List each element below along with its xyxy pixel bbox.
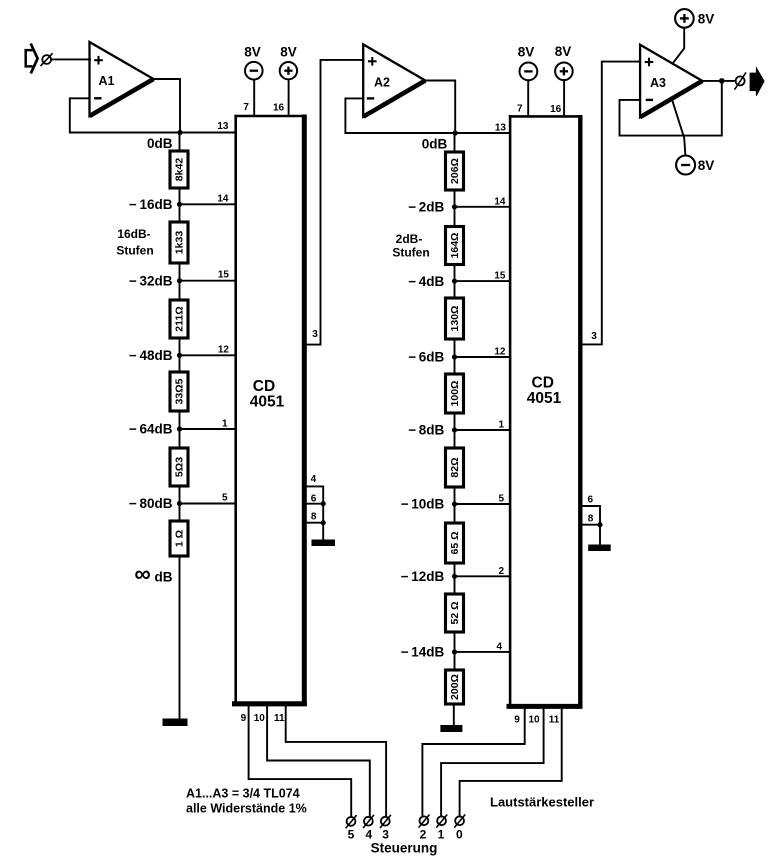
svg-text:33Ω5: 33Ω5: [174, 378, 186, 404]
svg-text:16: 16: [273, 103, 285, 114]
svg-text:11: 11: [274, 713, 285, 724]
resistor 8k42: [170, 151, 188, 188]
svg-text:0dB: 0dB: [147, 136, 173, 151]
svg-text:5Ω3: 5Ω3: [174, 457, 186, 477]
wire ladder1 seg4: [179, 338, 181, 372]
svg-text:6: 6: [588, 495, 594, 506]
resistor 1Ω: [170, 521, 188, 556]
svg-text:− 2dB: − 2dB: [408, 200, 444, 215]
svg-text:52 Ω: 52 Ω: [449, 601, 461, 624]
terminal 5: [346, 815, 357, 841]
svg-text:Stufen: Stufen: [392, 246, 429, 260]
wire A2 feedback: [345, 98, 455, 133]
wire tap 14: [180, 203, 236, 205]
resistor 65Ω: [446, 523, 464, 563]
pins 9,10,11 (U1): [241, 713, 285, 724]
wire tap 1: [180, 428, 236, 430]
resistor 130Ω: [446, 298, 464, 339]
wire A1 feedback: [70, 98, 180, 132]
input jack J1: [41, 53, 53, 66]
node -80dB: [177, 501, 182, 506]
svg-text:13: 13: [495, 123, 507, 134]
node -6dB: [452, 354, 457, 359]
wire ladder2 to ground: [453, 704, 455, 726]
svg-text:− 80dB: − 80dB: [129, 496, 173, 511]
wire ladder1 seg6: [179, 486, 181, 521]
svg-text:8V: 8V: [280, 45, 297, 60]
wire pin 9 to terminal 5: [249, 706, 352, 817]
wire A3 feedback: [620, 81, 722, 136]
svg-text:− 64dB: − 64dB: [129, 422, 173, 437]
svg-text:4: 4: [365, 828, 372, 842]
svg-text:− 12dB: − 12dB: [401, 569, 445, 584]
wire A1 output: [154, 79, 181, 133]
svg-text:8V: 8V: [518, 45, 535, 60]
resistor 82Ω: [446, 448, 464, 487]
svg-text:16: 16: [550, 104, 562, 115]
IC U1 CD4051: [232, 115, 307, 706]
wire pin 11 to terminal 0: [460, 709, 562, 817]
svg-text:5: 5: [222, 493, 228, 504]
svg-text:A1: A1: [99, 74, 115, 88]
node 0dB (A1 out): [177, 130, 182, 135]
svg-text:0dB: 0dB: [422, 136, 448, 151]
node -64dB: [177, 426, 182, 431]
svg-text:7: 7: [243, 102, 249, 113]
resistor 5Ω3: [170, 448, 188, 486]
terminal 4: [363, 815, 374, 842]
wire tap 12: [180, 354, 236, 356]
pins 6,8 (U2) to ground: [580, 495, 602, 546]
svg-text:− 4dB: − 4dB: [408, 274, 444, 289]
svg-text:4: 4: [311, 474, 317, 485]
node -4dB: [452, 279, 457, 284]
svg-text:14: 14: [494, 196, 506, 207]
wire ladder1 seg1: [179, 133, 181, 152]
svg-text:8V: 8V: [698, 12, 715, 27]
wire ladder2 seg6: [454, 487, 456, 523]
svg-text:200Ω: 200Ω: [449, 674, 461, 700]
wire ladder2 seg2: [454, 190, 456, 227]
wire A2 output: [425, 81, 455, 134]
svg-text:3: 3: [382, 828, 389, 842]
wire pin 9 to terminal 2: [422, 709, 524, 817]
svg-text:8: 8: [588, 514, 594, 525]
input arrow symbol: [26, 44, 38, 74]
svg-text:Steuerung: Steuerung: [371, 841, 438, 856]
supply +8V (U1): [273, 45, 297, 117]
svg-text:7: 7: [517, 104, 523, 115]
wire pin 3 (U1) to A2 +: [304, 60, 363, 345]
wire tap 1 (U2): [455, 429, 511, 431]
terminal 1: [436, 815, 447, 842]
wire tap 15 (U2): [455, 280, 511, 282]
node A3 out: [719, 78, 725, 84]
ground (U2 pins): [588, 545, 611, 552]
wire ladder2 seg5: [454, 413, 456, 448]
output arrow symbol: [750, 68, 764, 96]
op-amp A2: [363, 44, 425, 116]
svg-text:− 16dB: − 16dB: [129, 197, 173, 212]
wire node to pin 13 (U2): [455, 132, 510, 134]
svg-text:8: 8: [311, 512, 317, 523]
svg-text:5: 5: [348, 828, 355, 842]
svg-text:3: 3: [591, 331, 597, 342]
svg-text:8V: 8V: [698, 158, 715, 173]
wire pin 10 to terminal 4: [267, 706, 370, 817]
node -32dB: [177, 278, 182, 283]
op-amp A3: [640, 45, 702, 117]
wire input to A1 +: [51, 58, 90, 60]
pins 4,6,8 (U1) to ground: [304, 474, 326, 541]
resistor 200Ω: [446, 670, 464, 704]
svg-text:15: 15: [494, 271, 506, 282]
IC U2 CD4051: [507, 115, 583, 708]
svg-text:Stufen: Stufen: [116, 244, 153, 258]
supply -8V (U1): [243, 45, 262, 117]
resistor 33Ω5: [170, 372, 188, 411]
svg-text:15: 15: [218, 270, 230, 281]
svg-text:206Ω: 206Ω: [449, 158, 461, 184]
wire pin 11 to terminal 3: [286, 706, 386, 817]
svg-text:12: 12: [218, 345, 230, 356]
node -2dB: [452, 204, 457, 209]
wire ladder1 to ground: [179, 556, 181, 720]
terminal 0: [454, 815, 465, 842]
svg-text:100Ω: 100Ω: [449, 381, 461, 407]
wire tap 4 (U2): [455, 651, 511, 653]
svg-text:1: 1: [222, 419, 228, 430]
svg-text:4051: 4051: [250, 394, 285, 411]
node -10dB: [452, 501, 457, 506]
svg-text:130Ω: 130Ω: [449, 306, 461, 332]
wire tap 5 (U2): [455, 503, 511, 505]
svg-text:4051: 4051: [527, 390, 562, 407]
svg-text:Lautstärkesteller: Lautstärkesteller: [490, 795, 594, 810]
wire tap 12 (U2): [455, 356, 511, 358]
svg-text:211Ω: 211Ω: [174, 306, 186, 331]
wire ladder1 seg2: [179, 188, 181, 222]
svg-text:16dB-: 16dB-: [117, 227, 150, 241]
wire ladder1 seg3: [179, 263, 181, 300]
ground (ladder 1): [163, 719, 188, 727]
svg-text:14: 14: [217, 194, 229, 205]
svg-text:1: 1: [498, 420, 504, 431]
resistor 206Ω: [446, 152, 464, 190]
svg-text:− 32dB: − 32dB: [129, 274, 173, 289]
svg-text:2: 2: [420, 828, 427, 842]
ground (ladder 2): [440, 725, 462, 732]
svg-text:A2: A2: [374, 76, 390, 90]
pins 9,10,11 (U2): [514, 715, 560, 726]
svg-text:− 14dB: − 14dB: [401, 645, 445, 660]
wire A3 output: [702, 80, 735, 82]
svg-text:8V: 8V: [244, 45, 261, 60]
svg-text:3: 3: [312, 329, 318, 340]
svg-text:A1...A3 = 3/4 TL074: A1...A3 = 3/4 TL074: [186, 787, 300, 801]
svg-text:− 6dB: − 6dB: [408, 350, 444, 365]
svg-text:9: 9: [241, 713, 247, 724]
wire tap 2 (U2): [455, 575, 511, 577]
supply +8V (A3): [673, 9, 714, 63]
svg-text:8k42: 8k42: [174, 158, 186, 182]
op-amp A1: [90, 42, 154, 116]
wire ladder2 seg4: [454, 339, 456, 374]
svg-text:CD: CD: [532, 375, 554, 392]
svg-text:1 Ω: 1 Ω: [174, 530, 186, 547]
svg-text:0: 0: [456, 828, 463, 842]
svg-text:4: 4: [496, 641, 502, 652]
wire ladder2 seg7: [454, 563, 456, 594]
label 2dB-Stufen: [392, 232, 429, 260]
svg-text:10: 10: [528, 715, 540, 726]
node -16dB: [177, 202, 182, 207]
node -12dB: [452, 574, 457, 579]
node -8dB: [452, 427, 457, 432]
node -14dB: [452, 649, 457, 654]
node -48dB: [177, 353, 182, 358]
node 0dB (A2 out): [453, 130, 458, 135]
svg-text:11: 11: [549, 715, 560, 726]
wire ladder2 seg3: [454, 265, 456, 299]
wire ladder1 seg5: [179, 411, 181, 448]
svg-text:alle Widerstände 1%: alle Widerstände 1%: [186, 802, 307, 816]
resistor 164Ω: [446, 227, 464, 265]
svg-text:5: 5: [498, 494, 504, 505]
svg-text:2: 2: [498, 566, 504, 577]
svg-text:2dB-: 2dB-: [396, 232, 423, 246]
svg-text:65 Ω: 65 Ω: [449, 531, 461, 554]
svg-text:8V: 8V: [555, 44, 572, 59]
resistor 100Ω: [446, 374, 464, 413]
svg-text:82Ω: 82Ω: [449, 457, 461, 477]
wire pin 3 (U2) to A3 +: [580, 62, 640, 345]
resistor 52Ω: [446, 594, 464, 632]
wire ladder2 seg8: [454, 632, 456, 670]
svg-text:10: 10: [254, 713, 266, 724]
svg-text:12: 12: [494, 347, 506, 358]
svg-text:− 48dB: − 48dB: [129, 348, 173, 363]
ground (U1 pins): [312, 540, 336, 547]
wire tap 14 (U2): [455, 206, 511, 208]
output jack J2: [735, 72, 747, 89]
terminal 2: [419, 815, 430, 842]
svg-text:6: 6: [311, 494, 317, 505]
resistor 1k33: [170, 222, 188, 263]
svg-text:CD: CD: [253, 378, 275, 395]
label 16dB-Stufen: [116, 227, 153, 258]
svg-text:13: 13: [217, 121, 229, 132]
resistor 211Ω: [170, 300, 188, 338]
wire tap 5: [180, 503, 236, 505]
wire pin 10 to terminal 1: [441, 709, 543, 817]
svg-text:164Ω: 164Ω: [449, 233, 461, 259]
svg-text:9: 9: [514, 715, 520, 726]
terminal 3: [380, 815, 391, 842]
supply -8V (U2): [517, 45, 537, 117]
svg-text:− 10dB: − 10dB: [401, 497, 445, 512]
supply -8V (A3): [672, 101, 714, 175]
wire ladder2 seg1: [454, 133, 456, 152]
svg-text:− 8dB: − 8dB: [408, 423, 444, 438]
wire node to pin 13: [180, 132, 236, 134]
svg-text:1k33: 1k33: [174, 231, 186, 255]
wire tap 15: [180, 280, 236, 282]
supply +8V (U2): [550, 44, 573, 116]
svg-text:1: 1: [438, 828, 445, 842]
svg-text:A3: A3: [650, 76, 666, 90]
